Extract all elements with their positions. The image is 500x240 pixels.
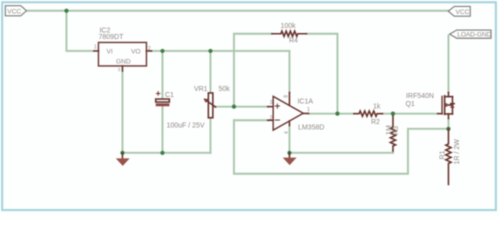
svg-text:Q1: Q1 <box>405 101 414 108</box>
svg-text:R1: R1 <box>439 150 446 159</box>
svg-text:R4: R4 <box>289 38 298 45</box>
svg-text:VR1: VR1 <box>194 86 208 93</box>
svg-text:1M: 1M <box>386 125 393 135</box>
svg-text:LM358D: LM358D <box>298 125 324 132</box>
svg-text:4: 4 <box>284 131 290 134</box>
svg-text:3: 3 <box>270 100 273 106</box>
svg-text:2: 2 <box>148 46 151 52</box>
svg-text:2: 2 <box>270 116 273 122</box>
svg-text:VCC: VCC <box>7 8 21 15</box>
svg-text:C1: C1 <box>165 92 174 99</box>
svg-text:3: 3 <box>118 67 121 72</box>
svg-text:1: 1 <box>94 45 97 51</box>
svg-text:1R / 2W: 1R / 2W <box>454 139 461 165</box>
svg-text:1k: 1k <box>373 104 381 111</box>
svg-text:R3: R3 <box>393 126 400 135</box>
svg-text:GND: GND <box>116 58 131 65</box>
svg-text:100k: 100k <box>280 23 296 30</box>
svg-text:VI: VI <box>106 48 112 55</box>
svg-text:R2: R2 <box>371 119 380 126</box>
svg-text:100uF / 25V: 100uF / 25V <box>166 123 204 130</box>
svg-text:IC1A: IC1A <box>297 98 313 105</box>
svg-text:7809DT: 7809DT <box>98 34 124 41</box>
svg-text:IRF540N: IRF540N <box>406 93 434 100</box>
svg-text:VO: VO <box>131 48 141 55</box>
svg-text:LOAD-GND: LOAD-GND <box>457 32 491 39</box>
svg-text:1: 1 <box>307 107 310 113</box>
svg-text:VCC: VCC <box>455 9 469 16</box>
svg-text:8: 8 <box>284 95 290 98</box>
svg-text:50k: 50k <box>218 86 230 93</box>
